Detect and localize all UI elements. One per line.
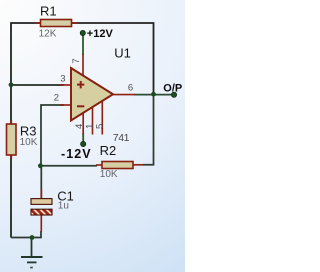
wire: right vertical below output junction to R2	[143, 94, 154, 165]
op-amp U1 pin4 stub	[82, 113, 84, 135]
svg-text:2: 2	[54, 93, 59, 104]
resistor R2 terminals	[96, 164, 103, 166]
op-amp minus marker	[77, 105, 84, 107]
ground bar 2	[27, 261, 37, 263]
op-amp U1 pin6 stub	[112, 94, 135, 96]
wire: +12V stub	[82, 34, 84, 55]
svg-text:12K: 12K	[39, 29, 57, 40]
junction node B at R2/C1	[38, 163, 43, 168]
op-amp U1 pin3 stub	[60, 84, 71, 86]
svg-text:10K: 10K	[100, 169, 118, 180]
wire: pin3 horizontal	[10, 84, 64, 86]
ground bar 3	[30, 267, 33, 269]
wire: pin2 horizontal and drop to node B	[41, 105, 64, 166]
junction node at ground tap	[30, 235, 35, 240]
svg-text:5: 5	[95, 124, 106, 129]
op-amp U1 pin1 stub	[92, 107, 94, 134]
junction node at R1/R3/pin3	[9, 82, 14, 87]
wire: node A loop - top horizontal and right vertical feedback	[11, 23, 154, 238]
capacitor C1 bottom terminal	[40, 215, 42, 233]
output terminal O/P	[171, 92, 176, 97]
svg-text:U1: U1	[114, 45, 131, 60]
junction node at output	[151, 92, 156, 97]
svg-text:R2: R2	[100, 143, 117, 158]
svg-text:6: 6	[128, 82, 133, 93]
svg-text:1u: 1u	[58, 201, 69, 212]
svg-text:O/P: O/P	[163, 83, 182, 95]
ground bar 1	[21, 256, 43, 258]
resistor R2	[102, 162, 133, 169]
capacitor C1 top plate	[31, 199, 52, 205]
wire: node B horizontal to R2	[40, 165, 97, 167]
capacitor C1 top terminal	[40, 166, 42, 199]
op-amp U1 body	[71, 68, 113, 121]
svg-text:-12V: -12V	[61, 147, 92, 161]
svg-text:10K: 10K	[20, 137, 38, 148]
power terminal +12V	[80, 30, 85, 35]
svg-text:741: 741	[113, 132, 130, 144]
svg-text:3: 3	[60, 74, 65, 85]
svg-text:7: 7	[71, 58, 82, 63]
svg-text:R1: R1	[40, 3, 57, 18]
op-amp plus marker	[77, 84, 84, 86]
op-amp U1 pin5 stub	[101, 101, 103, 135]
capacitor C1 bottom plate	[31, 209, 52, 215]
op-amp U1 pin2 stub	[60, 104, 71, 106]
power terminal -12V	[81, 141, 86, 146]
wire: pin4 to -12V terminal	[82, 133, 84, 143]
resistor R3 terminals	[10, 120, 12, 125]
wire: C1 bottom corner and bottom horizontal	[11, 231, 41, 238]
wire: ground stem	[31, 238, 33, 257]
resistor R1	[41, 20, 72, 27]
op-amp U1 pin7 stub	[82, 54, 84, 76]
svg-text:+12V: +12V	[87, 28, 114, 40]
resistor R1 terminals	[35, 22, 41, 24]
resistor R3	[7, 124, 17, 155]
svg-text:4: 4	[74, 124, 85, 129]
wire: output horizontal green part	[134, 94, 174, 96]
wire: left vertical green overlay	[10, 30, 12, 237]
